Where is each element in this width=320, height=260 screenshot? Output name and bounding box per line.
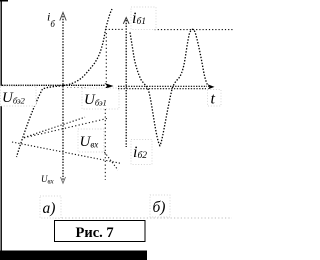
label box i_b2 [131, 140, 152, 165]
label box U_vx [78, 129, 104, 152]
projection line L1a from negative peak up-right (steeper) [24, 117, 85, 137]
label box U_be2 [1, 86, 37, 106]
horizontal U axis (part a) [2, 84, 105, 86]
caption box Ris. 7 [55, 221, 146, 242]
peak level dotted line right segment [155, 29, 234, 31]
arrowhead up (part a axis) [60, 13, 66, 21]
VT2 input characteristic curve [17, 86, 64, 158]
vertical projection at x=105 upper [105, 33, 107, 84]
label box t [208, 90, 222, 108]
arrowhead up (part b axis) [123, 18, 129, 24]
projection line L1b from negative peak up-right (gentler) [24, 119, 107, 138]
projection line L2 lower [12, 142, 120, 163]
VT1 input characteristic curve [63, 9, 112, 85]
label box b) [150, 195, 170, 217]
base current waveform: i_b1 pulse fall, i_b2 dip, i_b1 second pulse [130, 29, 212, 145]
bottom black band [0, 251, 147, 260]
svg-text:б): б) [153, 199, 166, 216]
steep short segment near U_vx box corner [103, 150, 119, 171]
arrowhead right (t axis) [208, 84, 215, 89]
label box i_b1 [131, 7, 156, 30]
svg-text:Рис. 7: Рис. 7 [76, 225, 114, 241]
top-left border tick [0, 0, 8, 2]
peak level dotted line left segment [106, 28, 125, 30]
svg-text:t: t [211, 91, 216, 108]
arrowhead right (part a U axis) [105, 83, 114, 89]
label box a) [40, 196, 61, 218]
t axis (part b) [118, 85, 207, 87]
axis i_b vertical (part a) [62, 16, 64, 180]
axis i_b vertical (part b) [125, 20, 127, 147]
arrowhead down (part a axis) [61, 177, 66, 183]
label box U_be1 [82, 88, 119, 109]
vertical projection at x=105 lower [104, 109, 106, 180]
faint dotted rule above caption [55, 217, 232, 219]
svg-text:а): а) [43, 200, 56, 217]
left table border [1, 0, 2, 253]
